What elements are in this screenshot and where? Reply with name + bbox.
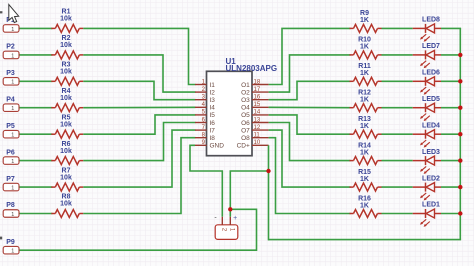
svg-text:11: 11 bbox=[254, 133, 261, 139]
pin 8 (I8) bbox=[195, 133, 215, 143]
svg-text:R5: R5 bbox=[62, 114, 71, 121]
wire LED5 to bus bbox=[441, 107, 461, 109]
port P8 bbox=[3, 202, 19, 218]
svg-text:R13: R13 bbox=[358, 116, 371, 123]
pin 13 (O6) bbox=[241, 117, 268, 127]
svg-text:O7: O7 bbox=[241, 127, 250, 134]
svg-text:O4: O4 bbox=[241, 105, 250, 112]
svg-text:P8: P8 bbox=[6, 202, 15, 209]
svg-text:R16: R16 bbox=[358, 195, 371, 202]
pin 15 (O4) bbox=[241, 102, 268, 112]
port P2 bbox=[3, 44, 19, 60]
junction node bus/LED1 row bbox=[458, 211, 462, 215]
svg-text:I8: I8 bbox=[210, 135, 216, 142]
svg-text:I2: I2 bbox=[210, 89, 216, 96]
svg-text:16: 16 bbox=[254, 95, 261, 101]
wire R2 to chip pin 2 bbox=[83, 55, 195, 92]
wire P6 to R6 bbox=[20, 160, 53, 162]
port P5 bbox=[3, 123, 19, 139]
wire R6 to chip pin 6 bbox=[83, 123, 195, 161]
svg-text:10: 10 bbox=[254, 140, 261, 146]
junction node bus/LED5 row bbox=[458, 106, 462, 110]
svg-text:O5: O5 bbox=[241, 112, 250, 119]
resistor R3 bbox=[51, 62, 83, 86]
svg-text:O2: O2 bbox=[241, 89, 250, 96]
svg-text:12: 12 bbox=[254, 125, 261, 131]
LED LED1 bbox=[413, 202, 441, 227]
svg-text:1: 1 bbox=[11, 106, 14, 112]
wire R12 to LED5 bbox=[382, 107, 413, 109]
wire R10 to LED7 bbox=[382, 54, 413, 56]
pin 7 (I7) bbox=[195, 125, 215, 135]
svg-text:1K: 1K bbox=[360, 202, 369, 209]
svg-text:1: 1 bbox=[11, 53, 14, 59]
svg-text:LED7: LED7 bbox=[422, 43, 440, 50]
resistor R4 bbox=[51, 88, 83, 112]
resistor R15 bbox=[350, 169, 382, 191]
svg-text:10k: 10k bbox=[60, 16, 72, 23]
svg-text:1: 1 bbox=[11, 159, 14, 165]
anode bus wire (right vertical) bbox=[459, 28, 461, 239]
resistor R6 bbox=[51, 141, 83, 165]
port P4 bbox=[3, 96, 19, 112]
pin 10 (CD+) bbox=[237, 140, 269, 150]
pin 1 (I1) bbox=[195, 79, 215, 89]
svg-text:P2: P2 bbox=[6, 44, 15, 51]
port P1 bbox=[3, 17, 19, 33]
wire R1 to chip pin 1 bbox=[83, 28, 195, 84]
svg-text:LED8: LED8 bbox=[422, 17, 440, 24]
port P9 bbox=[3, 239, 19, 255]
svg-text:10k: 10k bbox=[60, 201, 72, 208]
svg-text:10k: 10k bbox=[60, 148, 72, 155]
svg-text:R6: R6 bbox=[62, 141, 71, 148]
wire GND (pin 9) to battery - bbox=[190, 145, 222, 217]
pin 14 (O5) bbox=[241, 110, 268, 120]
svg-text:10k: 10k bbox=[60, 69, 72, 76]
svg-text:I5: I5 bbox=[210, 112, 216, 119]
resistor R13 bbox=[350, 116, 382, 138]
wire R15 to LED2 bbox=[382, 186, 413, 188]
junction node bus/LED4 row bbox=[458, 132, 462, 136]
resistor R5 bbox=[51, 114, 83, 138]
svg-text:LED1: LED1 bbox=[422, 202, 440, 209]
svg-text:LED5: LED5 bbox=[422, 96, 440, 103]
svg-text:P6: P6 bbox=[6, 149, 15, 156]
svg-text:LED2: LED2 bbox=[422, 175, 440, 182]
svg-text:R9: R9 bbox=[360, 10, 369, 17]
junction node battery +/P9 bbox=[228, 207, 232, 211]
svg-text:1K: 1K bbox=[360, 149, 369, 156]
wire O7 (pin 12) to R15 bbox=[269, 130, 351, 187]
svg-text:R10: R10 bbox=[358, 37, 371, 44]
pin 4 (I4) bbox=[195, 102, 215, 112]
svg-text:I1: I1 bbox=[210, 82, 216, 89]
junction node bus/LED6 row bbox=[458, 79, 462, 83]
pin 9 (GND) bbox=[195, 140, 224, 150]
LED LED7 bbox=[413, 43, 441, 68]
resistor R9 bbox=[350, 10, 382, 32]
wire O8 (pin 11) to R16 bbox=[269, 138, 351, 214]
svg-text:18: 18 bbox=[254, 79, 261, 85]
wire R13 to LED4 bbox=[382, 133, 413, 135]
LED LED3 bbox=[413, 149, 441, 174]
resistor R12 bbox=[350, 90, 382, 112]
svg-text:CD+: CD+ bbox=[237, 143, 250, 150]
pin 17 (O2) bbox=[241, 87, 268, 97]
wire R4 to chip pin 4 bbox=[83, 106, 195, 108]
battery G1 bbox=[214, 214, 237, 239]
svg-text:R14: R14 bbox=[358, 142, 371, 149]
svg-text:15: 15 bbox=[254, 102, 261, 108]
svg-text:+: + bbox=[233, 215, 237, 222]
svg-text:10k: 10k bbox=[60, 174, 72, 181]
svg-text:1K: 1K bbox=[360, 44, 369, 51]
svg-text:GND: GND bbox=[210, 143, 225, 150]
svg-text:10k: 10k bbox=[60, 42, 72, 49]
pin 12 (O7) bbox=[241, 125, 268, 135]
resistor R2 bbox=[51, 35, 83, 59]
resistor R8 bbox=[51, 194, 83, 218]
resistor R11 bbox=[350, 63, 382, 85]
svg-text:1K: 1K bbox=[360, 70, 369, 77]
wire LED3 to bus bbox=[441, 160, 461, 162]
svg-text:R1: R1 bbox=[62, 9, 71, 16]
wire P5 to R5 bbox=[20, 133, 53, 135]
junction node bus/LED7 row bbox=[458, 53, 462, 57]
svg-text:1K: 1K bbox=[360, 123, 369, 130]
pin 6 (I6) bbox=[195, 117, 215, 127]
wire O5 (pin 14) to R13 bbox=[269, 115, 351, 134]
pin 2 (I2) bbox=[195, 87, 215, 97]
wire P8 to R8 bbox=[20, 213, 53, 215]
svg-text:R3: R3 bbox=[62, 62, 71, 69]
wire O6 (pin 13) to R14 bbox=[269, 123, 351, 161]
wire R3 to chip pin 3 bbox=[83, 81, 195, 99]
svg-text:P9: P9 bbox=[6, 239, 15, 246]
svg-text:R7: R7 bbox=[62, 167, 71, 174]
wire LED8 to bus bbox=[441, 27, 461, 29]
wire branch to battery + bbox=[230, 171, 268, 217]
wire LED1 to bus bbox=[441, 213, 461, 215]
svg-text:P4: P4 bbox=[6, 96, 15, 103]
wire LED6 to bus bbox=[441, 80, 461, 82]
bottom bus wire bbox=[269, 239, 462, 241]
svg-text:1: 1 bbox=[11, 212, 14, 218]
pin 18 (O1) bbox=[241, 79, 268, 89]
op-amp/driver IC U1 ULN2803APG body bbox=[207, 71, 253, 155]
svg-text:P3: P3 bbox=[6, 70, 15, 77]
svg-text:I7: I7 bbox=[210, 127, 216, 134]
svg-text:1: 1 bbox=[11, 133, 14, 139]
svg-text:O8: O8 bbox=[241, 135, 250, 142]
wire O3 (pin 16) to R11 bbox=[269, 81, 351, 99]
svg-text:1: 1 bbox=[11, 27, 14, 33]
wire P3 to R3 bbox=[20, 80, 53, 82]
pin 5 (I5) bbox=[195, 110, 215, 120]
wire LED4 to bus bbox=[441, 133, 461, 135]
wire R7 to chip pin 7 bbox=[83, 130, 195, 187]
svg-text:R4: R4 bbox=[62, 88, 71, 95]
wire P9 to battery + net bbox=[20, 209, 257, 250]
resistor R7 bbox=[51, 167, 83, 191]
wire LED2 to bus bbox=[441, 186, 461, 188]
wire O1 (pin 18) to R9 bbox=[269, 28, 351, 84]
svg-text:R8: R8 bbox=[62, 194, 71, 201]
wire R8 to chip pin 8 bbox=[83, 138, 195, 214]
svg-text:1: 1 bbox=[11, 80, 14, 86]
LED LED5 bbox=[413, 96, 441, 121]
LED LED8 bbox=[413, 17, 441, 42]
svg-text:P7: P7 bbox=[6, 176, 15, 183]
mouse cursor bbox=[9, 5, 19, 23]
svg-text:P5: P5 bbox=[6, 123, 15, 130]
svg-text:I6: I6 bbox=[210, 120, 216, 127]
svg-text:17: 17 bbox=[254, 87, 261, 93]
wire O4 (pin 15) to R12 bbox=[269, 106, 351, 108]
port P6 bbox=[3, 149, 19, 165]
port P7 bbox=[3, 176, 19, 192]
wire LED7 to bus bbox=[441, 54, 461, 56]
LED LED6 bbox=[413, 70, 441, 95]
svg-text:10k: 10k bbox=[60, 95, 72, 102]
wire CD+ (pin 10) down to bottom bus bbox=[268, 145, 270, 240]
junction node bus/LED2 row bbox=[458, 185, 462, 189]
svg-text:1K: 1K bbox=[360, 17, 369, 24]
svg-text:10k: 10k bbox=[60, 121, 72, 128]
wire O2 (pin 17) to R10 bbox=[269, 55, 351, 92]
wire P2 to R2 bbox=[20, 54, 53, 56]
svg-text:R15: R15 bbox=[358, 169, 371, 176]
junction node CD+/battery branch bbox=[266, 169, 270, 173]
svg-text:1K: 1K bbox=[360, 176, 369, 183]
svg-text:LED4: LED4 bbox=[422, 122, 440, 129]
resistor R16 bbox=[350, 195, 382, 217]
svg-text:R11: R11 bbox=[358, 63, 371, 70]
resistor R10 bbox=[350, 37, 382, 59]
wire R11 to LED6 bbox=[382, 80, 413, 82]
LED LED4 bbox=[413, 122, 441, 147]
svg-text:LED3: LED3 bbox=[422, 149, 440, 156]
port P3 bbox=[3, 70, 19, 86]
svg-text:O1: O1 bbox=[241, 82, 250, 89]
svg-text:1K: 1K bbox=[360, 97, 369, 104]
svg-text:R2: R2 bbox=[62, 35, 71, 42]
svg-text:I3: I3 bbox=[210, 97, 216, 104]
svg-text:14: 14 bbox=[254, 110, 261, 116]
pin 3 (I3) bbox=[195, 95, 215, 105]
pin 11 (O8) bbox=[241, 133, 268, 143]
svg-text:R12: R12 bbox=[358, 90, 371, 97]
resistor R1 bbox=[51, 9, 83, 33]
svg-text:1: 1 bbox=[11, 249, 14, 255]
wire R9 to LED8 bbox=[382, 27, 413, 29]
junction node bus/LED3 row bbox=[458, 158, 462, 162]
svg-text:I4: I4 bbox=[210, 105, 216, 112]
wire P4 to R4 bbox=[20, 107, 53, 109]
svg-text:O6: O6 bbox=[241, 120, 250, 127]
svg-text:ULN2803APG: ULN2803APG bbox=[226, 64, 278, 73]
svg-text:1: 1 bbox=[11, 186, 14, 192]
wire P1 to R1 bbox=[20, 27, 53, 29]
pin 16 (O3) bbox=[241, 95, 268, 105]
wire P7 to R7 bbox=[20, 186, 53, 188]
svg-text:13: 13 bbox=[254, 117, 261, 123]
svg-text:LED6: LED6 bbox=[422, 70, 440, 77]
svg-text:O3: O3 bbox=[241, 97, 250, 104]
wire R14 to LED3 bbox=[382, 160, 413, 162]
wire R16 to LED1 bbox=[382, 213, 413, 215]
wire R5 to chip pin 5 bbox=[83, 115, 195, 134]
resistor R14 bbox=[350, 142, 382, 164]
LED LED2 bbox=[413, 175, 441, 200]
